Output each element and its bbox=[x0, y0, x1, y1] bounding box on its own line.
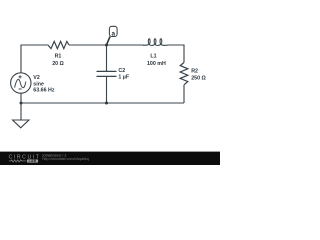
watermark author text bbox=[42, 153, 68, 158]
resistor R1 bbox=[48, 41, 69, 48]
svg-text:250 Ω: 250 Ω bbox=[191, 76, 206, 82]
wire R2 to bottom rail bbox=[183, 85, 185, 103]
label R2 value bbox=[191, 69, 206, 82]
junction at node a bbox=[105, 44, 108, 47]
CircuitLab logo bbox=[9, 155, 41, 163]
svg-text:LAB: LAB bbox=[29, 159, 37, 163]
svg-text:R2: R2 bbox=[191, 69, 198, 75]
svg-text:63.66 Hz: 63.66 Hz bbox=[33, 88, 55, 94]
wire C2 to bottom rail bbox=[106, 76, 108, 103]
wire node a down to C2 bbox=[106, 45, 108, 71]
svg-text:http://circuitlab.com/c/kqabkq: http://circuitlab.com/c/kqabkq bbox=[43, 157, 89, 161]
svg-text:R1: R1 bbox=[55, 54, 62, 60]
junction V2 at rail bbox=[20, 102, 23, 105]
watermark url text bbox=[43, 157, 89, 161]
resistor R2 bbox=[180, 63, 188, 85]
svg-text:20 Ω: 20 Ω bbox=[52, 61, 64, 67]
svg-text:V2: V2 bbox=[33, 75, 40, 81]
svg-text:L1: L1 bbox=[150, 53, 156, 59]
svg-text:C2: C2 bbox=[118, 68, 125, 74]
wire R1 to L1 through node a bbox=[69, 44, 144, 46]
watermark bar bbox=[0, 152, 220, 165]
label C2 value bbox=[118, 68, 129, 81]
inductor L1 bbox=[143, 39, 168, 46]
svg-text:100 mH: 100 mH bbox=[147, 61, 166, 67]
wire from V2 top up and right to R1 bbox=[21, 45, 48, 73]
label V2 value bbox=[33, 75, 55, 94]
junction C2 at rail bbox=[105, 102, 108, 105]
svg-text:a: a bbox=[112, 30, 116, 37]
capacitor C2 bbox=[97, 71, 117, 76]
svg-text:1 µF: 1 µF bbox=[118, 75, 129, 81]
ground bbox=[13, 120, 29, 128]
bottom rail wire bbox=[21, 102, 184, 104]
label L1 value bbox=[147, 53, 166, 67]
svg-text:sine: sine bbox=[33, 82, 44, 88]
label R1 value bbox=[52, 54, 64, 67]
wire L1 to R2 bbox=[168, 45, 185, 63]
node a flag bbox=[107, 26, 118, 45]
wire V2 to ground bbox=[20, 93, 22, 120]
voltage source V2 bbox=[11, 73, 31, 93]
